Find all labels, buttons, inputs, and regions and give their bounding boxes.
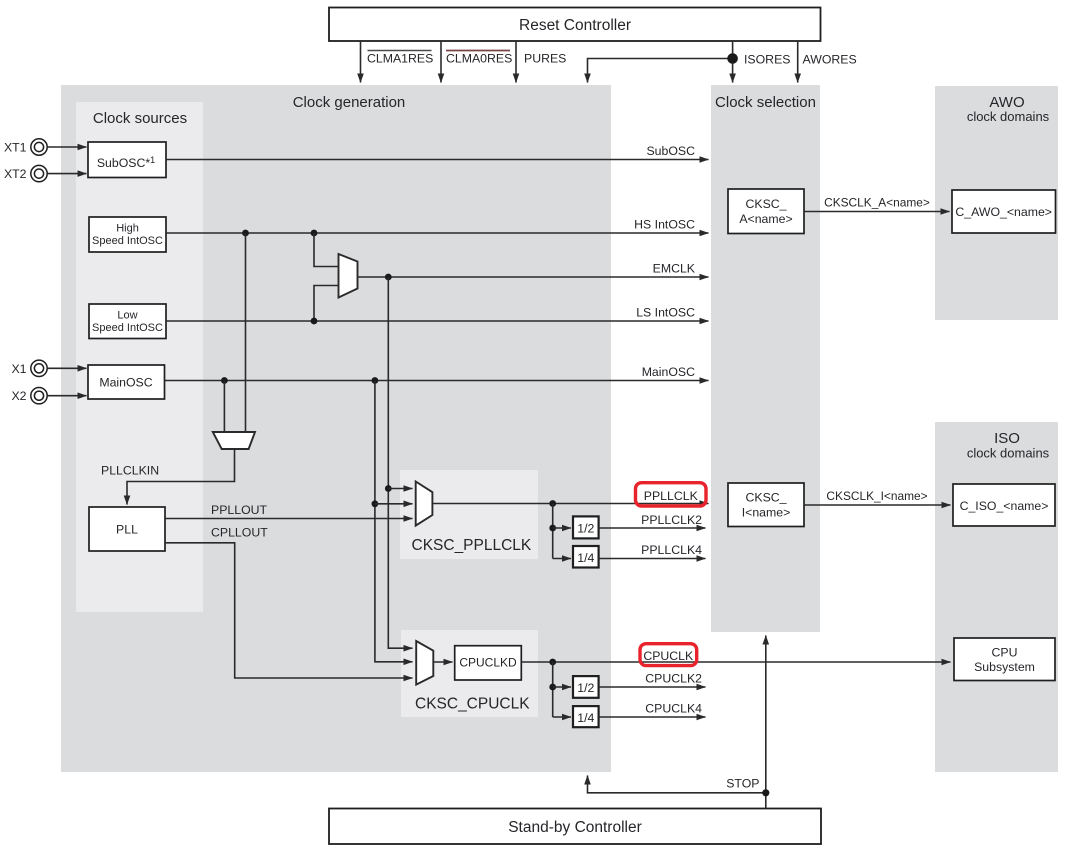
wire AWORES (797, 41, 799, 83)
wire SubOSC (166, 159, 709, 161)
wire X1 to MainOSC (47, 367, 86, 369)
block C_AWO (952, 190, 1056, 233)
block Low Speed IntOSC (89, 304, 166, 339)
wire CPUCLK2 (599, 686, 706, 688)
svg-text:C_ISO_<name>: C_ISO_<name> (960, 499, 1049, 513)
svg-text:Low: Low (117, 310, 137, 322)
svg-text:PLL: PLL (116, 523, 138, 537)
svg-text:X1: X1 (11, 362, 26, 376)
svg-text:CKSC_PPLLCLK: CKSC_PPLLCLK (412, 537, 532, 554)
svg-text:Clock generation: Clock generation (293, 94, 406, 111)
wire mux to CPUCLKD (433, 661, 452, 663)
wire PURES (515, 41, 517, 83)
junction STOP (762, 789, 769, 796)
mux EMCLK (339, 254, 358, 298)
block MainOSC (88, 365, 165, 399)
region: Clock sources background (76, 102, 203, 612)
svg-text:CKSC_: CKSC_ (745, 197, 786, 211)
junction PPLLCLK2 (549, 525, 556, 532)
wire MainOSC branch down to muxes (375, 381, 413, 662)
junction HS IntOSC to PLL mux (242, 230, 249, 237)
junction MainOSC branch (372, 377, 379, 384)
svg-text:clock domains: clock domains (967, 109, 1050, 124)
svg-text:clock domains: clock domains (967, 446, 1050, 461)
wire CLMA1RES (360, 41, 362, 83)
wire EMCLK (358, 276, 709, 278)
wire PPLLCLK4 (599, 558, 706, 560)
junction EMCLK branch to PPLL mux (385, 485, 392, 492)
mux CKSC_PPLLCLK (416, 482, 433, 526)
block CPUCLKD (455, 646, 522, 680)
region: Clock generation background (61, 85, 611, 772)
svg-text:Reset Controller: Reset Controller (519, 17, 631, 34)
svg-text:Subsystem: Subsystem (974, 660, 1035, 674)
junction CPUCLK dividers (549, 659, 556, 666)
svg-text:CPUCLKD: CPUCLKD (459, 656, 517, 670)
svg-text:CPLLOUT: CPLLOUT (211, 526, 268, 540)
svg-text:A<name>: A<name> (739, 212, 792, 226)
junction ISORES (727, 53, 738, 64)
wire CKSCLK_I (804, 504, 951, 506)
svg-text:1/2: 1/2 (577, 681, 594, 695)
svg-text:CLMA0RES: CLMA0RES (446, 52, 512, 66)
svg-text:PPLLCLK4: PPLLCLK4 (641, 543, 702, 557)
wire into divider 1/2 CPU (553, 686, 571, 688)
svg-text:1/4: 1/4 (577, 711, 594, 725)
wire STOP from stand-by controller (765, 793, 767, 809)
divider 1/2 CPU (573, 676, 599, 698)
svg-text:XT1: XT1 (4, 141, 27, 155)
junction MainOSC branch to PPLL mux (372, 500, 379, 507)
svg-text:CKSCLK_I<name>: CKSCLK_I<name> (826, 489, 927, 503)
block C_ISO (953, 484, 1055, 526)
block U2 Stand-by Controller (329, 809, 821, 845)
wire MainOSC branch to PPLL mux (375, 503, 413, 505)
svg-text:1/2: 1/2 (577, 522, 594, 536)
svg-text:MainOSC: MainOSC (99, 376, 152, 390)
wire HS IntOSC down to PLL mux (245, 233, 247, 431)
svg-text:CPUCLK: CPUCLK (643, 649, 694, 663)
svg-text:Clock sources: Clock sources (93, 110, 187, 127)
svg-text:Stand-by Controller: Stand-by Controller (508, 819, 642, 836)
region: Clock selection background (711, 85, 820, 632)
wire STOP branch to clock generation (588, 776, 766, 793)
svg-text:ISO: ISO (994, 430, 1020, 447)
wire into divider 1/4 CPU (553, 716, 571, 718)
region: CKSC_PPLLCLK background (400, 470, 538, 559)
svg-text:High: High (116, 223, 139, 235)
mux CKSC_CPUCLK (416, 641, 433, 685)
region: ISO clock domains background (935, 422, 1058, 772)
wire XT2 to SubOSC (47, 173, 86, 175)
block SubOSC (88, 142, 166, 178)
wire MainOSC down to PLL mux (223, 381, 225, 432)
svg-text:SubOSC: SubOSC (646, 144, 695, 158)
highlight box CPUCLK (640, 644, 697, 666)
junction HS IntOSC to EMCLK mux (311, 230, 318, 237)
svg-text:CPUCLK2: CPUCLK2 (645, 672, 702, 686)
wire XT1 to SubOSC (47, 146, 86, 148)
junction CPUCLK2 (549, 684, 556, 691)
wire into divider 1/2 PPLL (553, 527, 571, 529)
wire HS IntOSC (166, 232, 709, 234)
svg-text:CPU: CPU (992, 646, 1018, 660)
svg-text:I<name>: I<name> (742, 506, 791, 520)
svg-text:PURES: PURES (524, 52, 566, 66)
wire PPLLOUT (165, 518, 413, 520)
wire CPUCLK4 (599, 716, 706, 718)
wire PPLL divider chain (552, 504, 554, 559)
svg-text:CPUCLK4: CPUCLK4 (645, 702, 702, 716)
wire LS IntOSC (166, 320, 709, 322)
block CKSC_A (728, 189, 804, 234)
wire EMCLK branch to PPLL mux (388, 488, 412, 490)
svg-text:Speed IntOSC: Speed IntOSC (92, 322, 163, 334)
mux PLL input (213, 432, 255, 449)
block High Speed IntOSC (89, 217, 166, 252)
svg-text:Clock selection: Clock selection (715, 94, 816, 111)
wire CLMA0RES (440, 41, 442, 83)
block CKSC_I (728, 483, 804, 527)
svg-text:PLLCLKIN: PLLCLKIN (101, 464, 159, 478)
svg-text:X2: X2 (11, 389, 26, 403)
svg-text:SubOSC*1: SubOSC*1 (97, 155, 155, 170)
wire MainOSC (165, 380, 709, 382)
wire ISORES (732, 41, 734, 83)
wire STOP up to clock selection (765, 636, 767, 793)
region: AWO clock domains background (935, 86, 1058, 320)
junction LS IntOSC (311, 318, 318, 325)
wire PPLLCLK (432, 503, 708, 505)
region: CKSC_CPUCLK background (401, 630, 538, 717)
svg-text:STOP: STOP (726, 777, 759, 791)
divider 1/2 PPLL (573, 516, 599, 538)
svg-text:1/4: 1/4 (577, 551, 594, 565)
svg-text:CKSC_: CKSC_ (745, 491, 786, 505)
svg-text:CLMA1RES: CLMA1RES (367, 52, 433, 66)
svg-text:HS IntOSC: HS IntOSC (634, 218, 695, 232)
block PLL (89, 507, 165, 551)
wire CPLLOUT (165, 543, 413, 678)
svg-text:ISORES: ISORES (744, 53, 790, 67)
svg-text:Speed IntOSC: Speed IntOSC (92, 235, 163, 247)
svg-text:LS IntOSC: LS IntOSC (636, 306, 695, 320)
svg-text:EMCLK: EMCLK (653, 262, 696, 276)
junction MainOSC to PLL mux (221, 377, 228, 384)
svg-text:PPLLCLK: PPLLCLK (644, 489, 699, 503)
wire ISORES branch to clock generation (588, 59, 733, 83)
svg-text:C_AWO_<name>: C_AWO_<name> (955, 205, 1052, 219)
svg-text:CKSCLK_A<name>: CKSCLK_A<name> (824, 196, 930, 210)
highlight box PPLLCLK (636, 483, 707, 506)
wire EMCLK branch down to muxes (388, 277, 412, 648)
wire PPLLCLK2 (599, 527, 706, 529)
svg-text:PPLLCLK2: PPLLCLK2 (641, 513, 702, 527)
svg-text:AWORES: AWORES (803, 53, 857, 67)
wire into divider 1/4 PPLL (553, 558, 571, 560)
divider 1/4 PPLL (573, 546, 599, 568)
wire CPUCLK (521, 661, 950, 663)
wire LS IntOSC to EMCLK mux (314, 286, 339, 322)
svg-text:CKSC_CPUCLK: CKSC_CPUCLK (415, 696, 530, 713)
junction PPLLCLK dividers (549, 500, 556, 507)
svg-text:MainOSC: MainOSC (642, 365, 695, 379)
divider 1/4 CPU (573, 706, 599, 727)
wire CPU divider chain (552, 662, 554, 717)
junction EMCLK branch (385, 274, 392, 281)
block U1 Reset Controller (329, 8, 821, 42)
svg-text:XT2: XT2 (4, 167, 27, 181)
wire X2 to MainOSC (47, 395, 86, 397)
wire PLLCLKIN (127, 449, 235, 505)
svg-text:PPLLOUT: PPLLOUT (211, 503, 268, 517)
wire HS IntOSC to EMCLK mux (314, 233, 339, 267)
block CPU Subsystem (954, 638, 1055, 681)
wire CKSCLK_A (804, 211, 950, 213)
